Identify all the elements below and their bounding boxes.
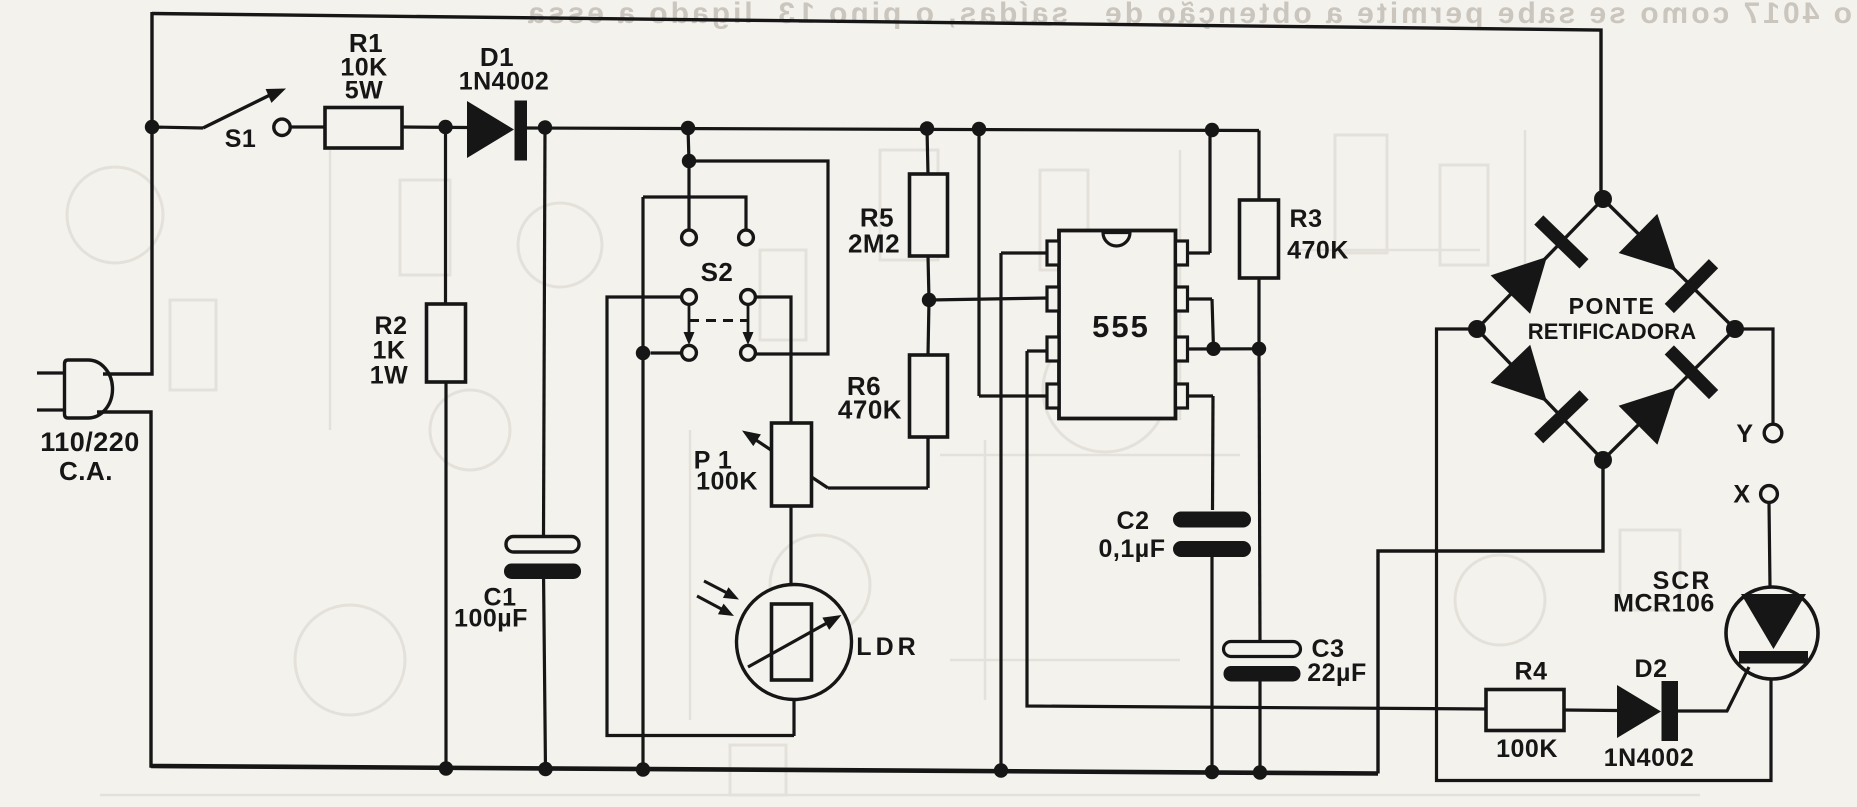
svg-text:MCR106: MCR106 xyxy=(1613,590,1715,618)
svg-text:LDR: LDR xyxy=(856,633,919,661)
svg-text:C.A.: C.A. xyxy=(59,456,113,486)
svg-text:R3: R3 xyxy=(1290,205,1323,233)
svg-text:PONTE: PONTE xyxy=(1569,293,1656,319)
svg-text:100K: 100K xyxy=(696,468,758,496)
svg-text:0,1µF: 0,1µF xyxy=(1099,535,1166,563)
svg-text:1W: 1W xyxy=(370,362,409,390)
svg-text:100µF: 100µF xyxy=(454,605,528,633)
svg-text:1N4002: 1N4002 xyxy=(459,68,550,96)
svg-text:22µF: 22µF xyxy=(1307,659,1366,687)
svg-text:D2: D2 xyxy=(1635,655,1668,683)
svg-text:1N4002: 1N4002 xyxy=(1604,744,1695,772)
svg-text:100K: 100K xyxy=(1496,735,1558,763)
svg-text:C2: C2 xyxy=(1117,507,1150,535)
svg-text:Y: Y xyxy=(1736,420,1753,448)
svg-text:470K: 470K xyxy=(838,395,902,425)
svg-text:R4: R4 xyxy=(1515,658,1548,686)
svg-text:X: X xyxy=(1733,481,1750,509)
svg-text:S1: S1 xyxy=(225,125,257,153)
svg-text:S2: S2 xyxy=(701,257,734,287)
svg-text:RETIFICADORA: RETIFICADORA xyxy=(1528,319,1697,344)
svg-text:470K: 470K xyxy=(1287,237,1349,265)
svg-text:5W: 5W xyxy=(345,77,384,105)
svg-text:110/220: 110/220 xyxy=(40,427,140,457)
svg-text:555: 555 xyxy=(1092,309,1150,344)
svg-text:1K: 1K xyxy=(373,337,406,365)
svg-text:2M2: 2M2 xyxy=(848,229,900,259)
